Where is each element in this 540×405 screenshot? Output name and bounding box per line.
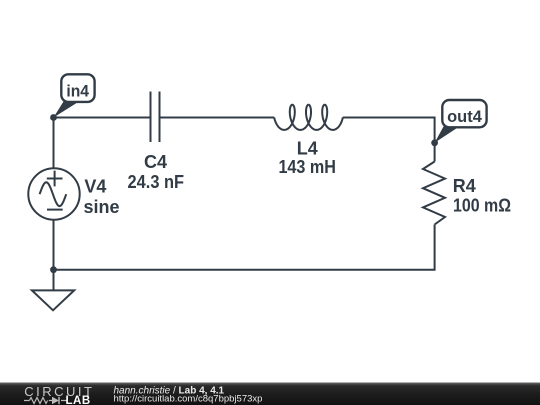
V4 minus sign <box>47 209 63 211</box>
svg-text:143 mH: 143 mH <box>278 157 336 177</box>
footer bar <box>0 383 540 405</box>
node in4 junction dot <box>50 114 57 121</box>
svg-text:R4: R4 <box>453 176 476 196</box>
voltage source V4 circle <box>28 168 79 219</box>
in4 flag box <box>61 74 94 102</box>
ground symbol triangle <box>32 290 74 310</box>
svg-text:out4: out4 <box>447 107 482 126</box>
logo wire <box>24 400 67 402</box>
wire: ground stub <box>53 270 55 291</box>
svg-text:L4: L4 <box>297 138 318 158</box>
svg-text:in4: in4 <box>66 82 89 101</box>
inductor L4 coil <box>274 105 343 130</box>
svg-text:http://circuitlab.com/c8q7bpbj: http://circuitlab.com/c8q7bpbj573xp <box>114 394 263 405</box>
wire top: node in4 to C4 left plate <box>54 117 150 119</box>
wire: left vertical, node in4 down to V4 top <box>53 118 55 169</box>
logo resistor zigzag <box>29 398 47 404</box>
out4 flag tail <box>435 127 460 143</box>
logo diode <box>52 397 59 404</box>
svg-text:V4: V4 <box>84 176 106 196</box>
in4 flag tail <box>54 102 80 118</box>
node ground junction dot <box>50 266 57 273</box>
capacitor C4 plates <box>151 92 160 143</box>
svg-text:LAB: LAB <box>66 395 91 405</box>
resistor R4 zigzag <box>423 162 445 225</box>
wire: bottom rail from junction to right, up to R4 bottom <box>54 225 435 270</box>
svg-text:C4: C4 <box>144 152 167 172</box>
svg-text:24.3 nF: 24.3 nF <box>128 172 185 192</box>
V4 plus sign <box>47 171 63 187</box>
svg-text:sine: sine <box>84 197 120 217</box>
V4 sine wave <box>40 182 67 206</box>
wire: V4 bottom down to ground junction <box>53 220 55 270</box>
wire: C4 right plate to L4 <box>161 117 275 119</box>
svg-text:100 mΩ: 100 mΩ <box>453 196 511 216</box>
wire: L4 to top-right corner, down to R4 top <box>343 118 435 162</box>
node out4 junction dot <box>431 139 438 146</box>
out4 flag box <box>442 100 486 127</box>
